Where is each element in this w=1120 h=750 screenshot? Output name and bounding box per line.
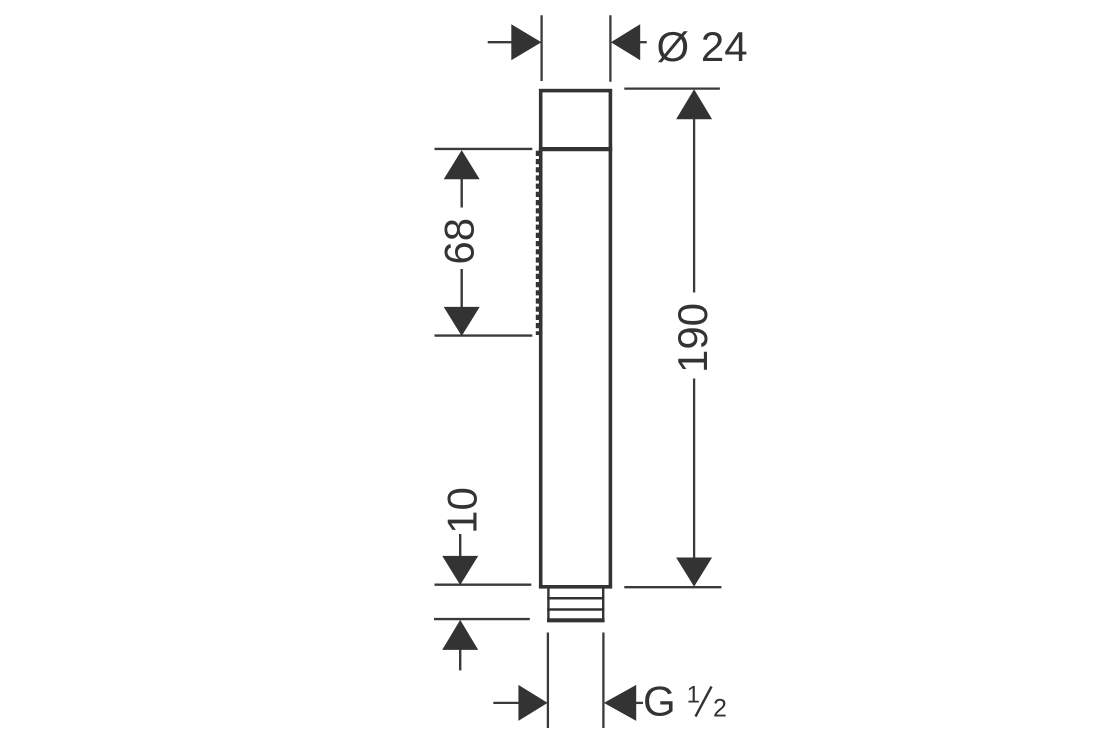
connector left edge: [547, 588, 549, 620]
dim68 bottom arrow: [444, 307, 480, 336]
svg-text:10: 10: [439, 487, 486, 534]
connector thread line 2: [547, 608, 604, 611]
dim10 down arrow: [442, 556, 478, 585]
dim190 upper dimension line segment: [693, 118, 695, 293]
dim10 lower extension line: [434, 618, 530, 620]
g12 left arrow tail: [493, 702, 519, 704]
dim190 lower dimension line segment: [693, 379, 695, 559]
g12 left arrow: [518, 685, 547, 721]
dia24 right arrow: [611, 24, 640, 60]
connector right edge: [602, 588, 604, 620]
connector bottom edge: [547, 618, 605, 622]
dia24 left arrow tail: [488, 41, 512, 43]
dim68 upper dimension line segment: [461, 178, 463, 208]
dia24 right arrow tail: [640, 41, 647, 43]
svg-text:Ø 24: Ø 24: [657, 23, 748, 70]
svg-text:2: 2: [713, 695, 727, 723]
g12 left extension line: [547, 633, 549, 729]
svg-text:G: G: [643, 678, 676, 725]
svg-text:68: 68: [436, 218, 483, 265]
dim10 upper extension line: [435, 584, 532, 586]
dim68 lower dimension line segment: [461, 269, 463, 308]
dim68 bottom extension line: [435, 334, 533, 336]
svg-text:190: 190: [669, 303, 716, 373]
g12 label fraction slash: [696, 687, 712, 717]
dim190 top extension line: [624, 87, 720, 89]
shower wand outer body outline: [541, 91, 611, 587]
dia24 right extension line: [609, 15, 611, 82]
spray nozzle dotted line: [536, 151, 541, 335]
dim10 up arrow: [442, 620, 478, 650]
dim68 top arrow: [444, 150, 480, 179]
dim190 bottom arrow: [676, 558, 712, 587]
g12 right extension line: [602, 633, 604, 729]
dim10 lower tail line: [459, 649, 461, 670]
g12 right arrow: [604, 685, 636, 721]
dim68 top extension line: [435, 148, 533, 150]
svg-text:1: 1: [687, 682, 700, 709]
dia24 left extension line: [540, 15, 542, 81]
connector thread line 1: [547, 597, 604, 600]
dia24 left arrow: [511, 24, 541, 60]
dim190 bottom extension line: [624, 586, 721, 588]
dim190 top arrow: [676, 89, 712, 119]
shower head divider line: [539, 147, 612, 151]
g12 right arrow tail: [636, 702, 644, 704]
dim10 upper dimension line segment: [459, 534, 461, 557]
